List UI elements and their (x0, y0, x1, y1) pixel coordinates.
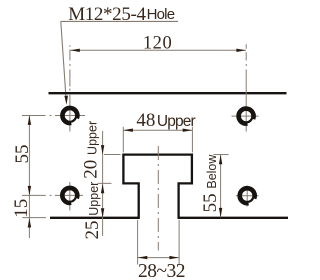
dim 48 extension left (122, 127, 124, 153)
dimension 120 right arrow (236, 49, 246, 52)
dim 20 top arrow (101, 145, 104, 154)
dim 55 Below line (220, 155, 222, 218)
dim 20/25 line (102, 131, 104, 236)
svg-text:M12*25-4: M12*25-4 (68, 4, 146, 25)
dim 15 bottom arrow (28, 218, 31, 228)
dim 28~32 left arrow (138, 256, 148, 259)
dimension 120 line (70, 49, 246, 51)
hole H1 thread arc (61, 107, 78, 124)
label M12*25-4 Hole (68, 4, 175, 25)
dim 48 left arrow (123, 129, 132, 132)
extension line y217.6 (22, 217, 46, 219)
dim 55 top arrow (28, 115, 31, 124)
hole H4 drill circle (241, 189, 254, 202)
hole H2 centerline horizontal (232, 115, 259, 117)
hole H3 drill circle (64, 189, 77, 202)
hole H1 drill circle (64, 109, 77, 122)
T profile (50, 155, 288, 218)
dim 48 right arrow (183, 129, 193, 132)
dim 25 bottom arrow (101, 208, 104, 218)
dimension 48 line (123, 129, 192, 131)
hole H1 centerline vertical (69, 45, 71, 131)
hole H3 centerline horizontal (22, 194, 83, 196)
hole H4 centerline vertical (246, 186, 248, 207)
dim 28~32 right arrow (169, 256, 179, 259)
leader underline (61, 20, 178, 22)
hole H2 drill circle (240, 110, 253, 123)
svg-text:48: 48 (136, 110, 155, 131)
leader arrowhead (64, 96, 68, 105)
hole H2 centerline vertical (245, 44, 247, 131)
hole H4 thread arc (239, 187, 256, 204)
dim 55/15 shared arrow (28, 186, 31, 195)
leader line (61, 21, 66, 99)
extension line y154.55 left (104, 154, 121, 156)
extension line y183.35 left (98, 182, 112, 184)
hole H2 thread arc (238, 108, 255, 125)
dim 48 extension right (191, 127, 193, 153)
slot centerline (157, 146, 159, 251)
dim 28~32 extension left (137, 220, 139, 265)
dim 20/25 shared arrow (101, 184, 104, 194)
dim 55 Below top arrow (219, 155, 222, 165)
svg-text:28~32: 28~32 (138, 261, 185, 280)
dimension 28~32 line (138, 257, 179, 259)
dimension 48 Upper text (136, 110, 195, 131)
hole H4 centerline horizontal (236, 195, 259, 197)
dim 55 Below bottom arrow (219, 208, 222, 218)
hole H1 centerline horizontal (22, 114, 85, 116)
dim 28~32 extension right (178, 220, 180, 265)
hole H3 centerline vertical (69, 182, 71, 211)
svg-text:Hole: Hole (147, 6, 175, 23)
plate top edge (49, 92, 287, 94)
extension line y154.55 right (214, 154, 229, 156)
dimension 120 left arrow (70, 49, 80, 52)
hole H3 thread arc (61, 187, 78, 204)
svg-text:Upper: Upper (157, 113, 196, 130)
dimension 55/15 line (28, 115, 30, 238)
svg-text:15: 15 (11, 199, 32, 218)
